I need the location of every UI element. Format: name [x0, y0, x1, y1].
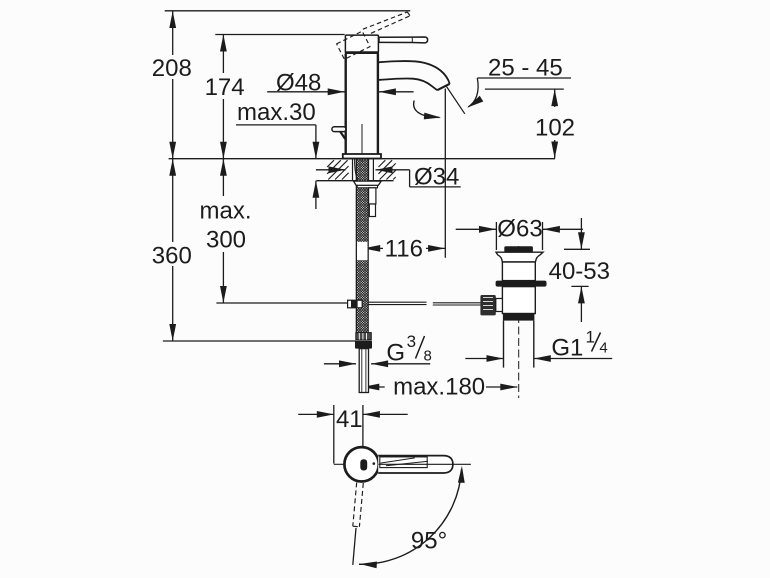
svg-text:116: 116	[385, 236, 423, 263]
svg-text:95°: 95°	[411, 528, 447, 555]
svg-text:Ø63: Ø63	[497, 216, 542, 243]
svg-text:max.30: max.30	[237, 99, 316, 126]
svg-text:8: 8	[424, 347, 432, 364]
svg-text:4: 4	[599, 340, 607, 357]
svg-text:40-53: 40-53	[549, 258, 610, 285]
svg-text:G: G	[386, 340, 405, 367]
svg-text:300: 300	[206, 227, 246, 254]
svg-text:G1: G1	[551, 335, 583, 362]
svg-text:174: 174	[205, 74, 245, 101]
svg-text:3: 3	[407, 332, 416, 351]
svg-text:1: 1	[586, 327, 595, 346]
svg-text:25 - 45: 25 - 45	[488, 55, 563, 82]
svg-text:208: 208	[152, 55, 192, 82]
svg-text:max.180: max.180	[393, 374, 485, 401]
svg-text:41: 41	[336, 406, 363, 433]
svg-text:max.: max.	[199, 198, 251, 225]
svg-text:Ø34: Ø34	[414, 164, 459, 191]
svg-text:360: 360	[152, 242, 192, 269]
svg-text:102: 102	[535, 115, 575, 142]
